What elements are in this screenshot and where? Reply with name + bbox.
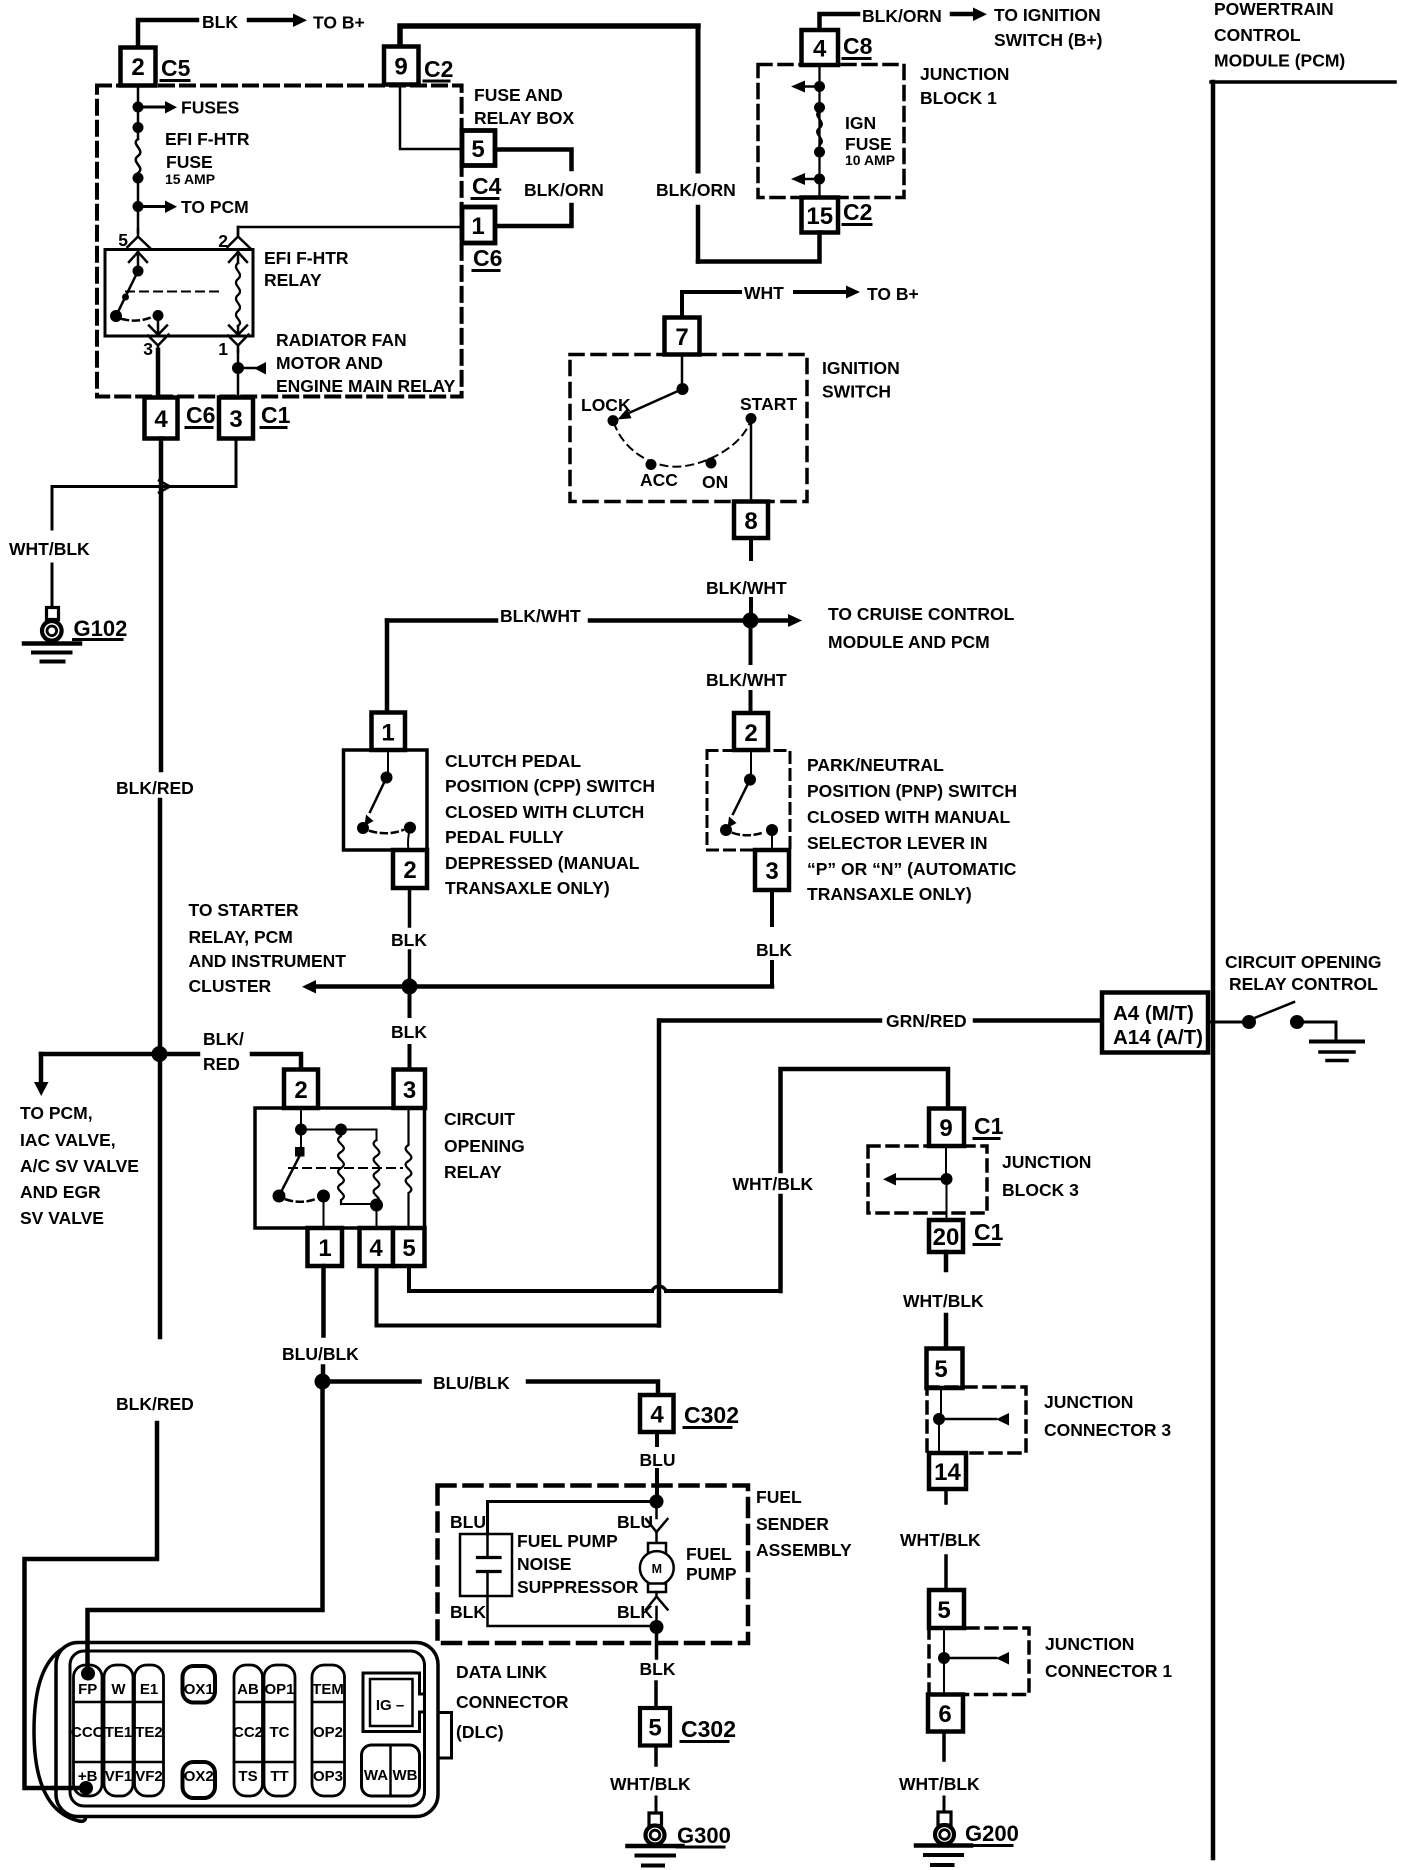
- pin 1 male arrow (down): [229, 326, 247, 335]
- DLC inner shell: [70, 1651, 425, 1806]
- relay box (circuit opening relay): [255, 1108, 425, 1228]
- fuse IGN 10A (wavy symbol): [817, 111, 822, 149]
- svg-text:FUEL: FUEL: [686, 1544, 732, 1564]
- svg-text:2: 2: [131, 54, 144, 81]
- svg-text:AND INSTRUMENT: AND INSTRUMENT: [189, 951, 347, 971]
- svg-text:SV VALVE: SV VALVE: [20, 1208, 104, 1228]
- svg-text:SWITCH (B+): SWITCH (B+): [994, 30, 1102, 50]
- JC3 interior: [940, 1388, 942, 1416]
- svg-text:MODULE (PCM): MODULE (PCM): [1214, 51, 1345, 71]
- svg-text:C1: C1: [974, 1219, 1004, 1245]
- svg-text:TO PCM: TO PCM: [181, 197, 249, 217]
- interior link to coils: [301, 1130, 377, 1141]
- arrow to FUSES: [144, 106, 166, 109]
- hop over GRN/RED: [652, 1286, 666, 1291]
- wire from relay pin 5: [409, 1266, 652, 1291]
- junction connector 3 (dashed): [927, 1387, 1026, 1453]
- svg-text:MODULE AND PCM: MODULE AND PCM: [828, 632, 990, 652]
- svg-text:BLK: BLK: [640, 1659, 676, 1679]
- wire pin7 into switch: [681, 355, 684, 389]
- switch contact node right: [153, 310, 164, 321]
- wire pin3 to 4 C6: [156, 350, 161, 400]
- svg-text:VF2: VF2: [135, 1768, 163, 1785]
- connector box 7: [665, 318, 700, 355]
- pins WA WB: [362, 1745, 420, 1796]
- connector box 1 C6: [462, 207, 495, 243]
- svg-text:A14 (A/T): A14 (A/T): [1113, 1026, 1203, 1049]
- wire 3 C1 down to ground run: [52, 439, 236, 487]
- svg-text:BLK/WHT: BLK/WHT: [706, 670, 787, 690]
- wire BLU: [655, 1432, 659, 1445]
- svg-text:2: 2: [403, 857, 416, 884]
- svg-text:9: 9: [394, 54, 407, 81]
- connector box 5 C302: [640, 1708, 670, 1746]
- pin column TEM/OP2/OP3: [312, 1665, 345, 1796]
- JB3 interior: [945, 1146, 947, 1176]
- svg-text:C4: C4: [472, 173, 502, 199]
- svg-text:ACC: ACC: [640, 470, 678, 490]
- svg-text:BLK/WHT: BLK/WHT: [500, 606, 581, 626]
- svg-text:5: 5: [402, 1235, 415, 1262]
- svg-text:BLK/RED: BLK/RED: [116, 778, 194, 798]
- wire pin2 into PNP: [750, 750, 752, 778]
- svg-text:5: 5: [118, 230, 128, 250]
- node fuel pump feed: [650, 1495, 664, 1509]
- node BLK/WHT tee: [743, 613, 759, 629]
- node +B terminal: [79, 1781, 93, 1795]
- svg-text:BLU/BLK: BLU/BLK: [433, 1373, 510, 1393]
- svg-text:BLK: BLK: [391, 930, 427, 950]
- svg-text:RELAY, PCM: RELAY, PCM: [189, 927, 293, 947]
- relay interior: pin2 lead: [300, 1108, 302, 1127]
- CPP blade with arrow: [370, 778, 387, 813]
- DLC right tab: [438, 1713, 452, 1759]
- pin 1 connector symbol: [228, 335, 249, 353]
- connector box 3 (PNP): [755, 850, 789, 890]
- pin OX1: [183, 1666, 216, 1703]
- svg-text:C8: C8: [843, 33, 873, 59]
- node FP terminal: [81, 1667, 95, 1681]
- node fuel pump return: [650, 1620, 664, 1634]
- svg-text:BLK: BLK: [391, 1022, 427, 1042]
- svg-text:CLOSED WITH MANUAL: CLOSED WITH MANUAL: [807, 807, 1010, 827]
- node ACC: [646, 459, 657, 470]
- svg-text:JUNCTION: JUNCTION: [1045, 1634, 1134, 1654]
- wire BLK down: [655, 1627, 659, 1658]
- svg-text:AND EGR: AND EGR: [20, 1182, 101, 1202]
- DLC outer shell: [56, 1643, 438, 1817]
- svg-text:RELAY: RELAY: [444, 1162, 502, 1182]
- wire 9 C2 to pin 5: [400, 85, 461, 150]
- coil 3 (pin3 to pin5): [406, 1108, 412, 1228]
- wire fuse feed vertical: [137, 86, 140, 139]
- switch pivot node: [133, 266, 144, 277]
- svg-text:LOCK: LOCK: [581, 395, 631, 415]
- junction block 3 (dashed): [868, 1146, 987, 1213]
- svg-text:AB: AB: [237, 1681, 259, 1698]
- svg-text:FUSE: FUSE: [845, 134, 892, 154]
- svg-text:PARK/NEUTRAL: PARK/NEUTRAL: [807, 755, 944, 775]
- svg-text:SUPPRESSOR: SUPPRESSOR: [517, 1577, 639, 1597]
- svg-text:TE1: TE1: [105, 1724, 133, 1741]
- PNP blade with arrow: [733, 780, 750, 814]
- node ON: [706, 458, 717, 469]
- wire +B entry through shell: [54, 1786, 80, 1791]
- pin column FP/CCO/+B: [74, 1665, 103, 1796]
- svg-text:G200: G200: [965, 1821, 1019, 1846]
- svg-text:BLU: BLU: [450, 1512, 486, 1532]
- wire pin1 into CPP: [387, 750, 389, 776]
- node CPP contact right: [404, 822, 416, 834]
- node CPP pivot: [381, 772, 393, 784]
- svg-text:START: START: [740, 394, 797, 414]
- wire WHT/BLK to G300: [654, 1746, 658, 1766]
- ignition rotor blade with arrow: [630, 389, 683, 413]
- svg-text:TO B+: TO B+: [867, 284, 919, 304]
- svg-text:JUNCTION: JUNCTION: [1002, 1152, 1091, 1172]
- wire BLK/RED horizontal: [41, 1052, 198, 1057]
- wire BLK/ORN from 4 C8 to ignition switch: [820, 14, 859, 30]
- wire BLU/BLK from relay pin 1: [321, 1266, 326, 1336]
- switch armature: [300, 1130, 302, 1148]
- wire pin1 to 3 C1: [237, 350, 240, 400]
- svg-text:OP2: OP2: [313, 1724, 343, 1741]
- node radiator fan branch: [232, 362, 244, 374]
- node coil1 top: [335, 1124, 347, 1136]
- wire to noise suppressor: [488, 1502, 657, 1535]
- node + arrow branch top: [814, 81, 825, 92]
- motor fuel pump: [648, 1543, 666, 1553]
- node LOCK: [608, 415, 619, 426]
- svg-text:(DLC): (DLC): [456, 1722, 504, 1742]
- svg-text:WHT/BLK: WHT/BLK: [610, 1774, 691, 1794]
- svg-text:POSITION (PNP) SWITCH: POSITION (PNP) SWITCH: [807, 781, 1017, 801]
- svg-text:CONNECTOR: CONNECTOR: [456, 1692, 569, 1712]
- svg-text:JUNCTION: JUNCTION: [920, 64, 1009, 84]
- svg-text:FP: FP: [78, 1681, 97, 1698]
- connector box 3 C1: [219, 398, 253, 439]
- svg-text:3: 3: [143, 339, 153, 359]
- connector box 4 C302: [640, 1395, 674, 1432]
- switch contact node left: [110, 310, 122, 322]
- svg-text:3: 3: [765, 858, 778, 885]
- svg-text:14: 14: [934, 1459, 961, 1486]
- svg-text:BLK/WHT: BLK/WHT: [706, 578, 787, 598]
- wire BLK down to circuit opening relay pin 3: [408, 994, 412, 1016]
- svg-text:G102: G102: [74, 616, 128, 641]
- ground G300 (ring terminal): [649, 1813, 662, 1826]
- svg-text:5: 5: [934, 1356, 947, 1383]
- svg-text:TRANSAXLE ONLY): TRANSAXLE ONLY): [445, 878, 610, 898]
- link to pin 2: [408, 828, 410, 850]
- svg-text:RED: RED: [203, 1054, 240, 1074]
- svg-text:BLK: BLK: [450, 1602, 486, 1622]
- svg-text:FUSES: FUSES: [181, 98, 239, 118]
- svg-text:BLU/BLK: BLU/BLK: [282, 1344, 359, 1364]
- svg-text:EFI F-HTR: EFI F-HTR: [264, 248, 349, 268]
- svg-text:ON: ON: [702, 472, 728, 492]
- node BLU/BLK junction: [315, 1374, 331, 1390]
- pin column E1/TE2/VF2: [135, 1665, 164, 1796]
- svg-text:BLOCK 3: BLOCK 3: [1002, 1180, 1079, 1200]
- svg-text:WA: WA: [364, 1767, 388, 1784]
- svg-text:1: 1: [318, 1235, 331, 1262]
- PCM boundary: [1211, 82, 1216, 1858]
- svg-text:ENGINE MAIN RELAY: ENGINE MAIN RELAY: [276, 376, 456, 396]
- wire BLK/WHT to CPP pin 1: [385, 621, 390, 713]
- merge chevron at BLK/RED crossing: [159, 481, 170, 493]
- connector box 5 C4: [462, 131, 495, 166]
- svg-text:C2: C2: [424, 56, 453, 82]
- svg-text:SENDER: SENDER: [756, 1514, 829, 1534]
- svg-text:OP3: OP3: [313, 1768, 343, 1785]
- svg-text:BLK/ORN: BLK/ORN: [524, 180, 604, 200]
- wire BLK from PNP pin 3: [770, 890, 774, 925]
- svg-text:CONNECTOR 3: CONNECTOR 3: [1044, 1420, 1171, 1440]
- coil 2: [374, 1140, 380, 1204]
- wire START to pin 8: [750, 419, 753, 502]
- svg-text:M: M: [652, 1562, 662, 1576]
- svg-text:G300: G300: [677, 1823, 731, 1848]
- dashed mechanical link: [289, 1167, 402, 1169]
- svg-text:ASSEMBLY: ASSEMBLY: [756, 1540, 852, 1560]
- svg-text:CC2: CC2: [233, 1724, 263, 1741]
- svg-text:FUEL PUMP: FUEL PUMP: [517, 1531, 618, 1551]
- wire BLK/ORN loop 5 to 1: [495, 150, 572, 170]
- arrow to cruise control: [758, 618, 789, 623]
- pin 3 male arrow (down): [149, 316, 167, 335]
- wire BLK from connector 2 C5 to B+: [138, 20, 197, 49]
- node START: [746, 413, 757, 424]
- svg-text:C1: C1: [974, 1113, 1004, 1139]
- svg-text:OP1: OP1: [264, 1681, 294, 1698]
- coil 1: [338, 1130, 344, 1205]
- svg-text:5: 5: [471, 136, 484, 163]
- svg-text:IGNITION: IGNITION: [822, 358, 900, 378]
- svg-text:POWERTRAIN: POWERTRAIN: [1214, 0, 1334, 19]
- connector box 9 C1: [929, 1109, 964, 1147]
- DLC left cover wing: [34, 1643, 86, 1821]
- capacitor fuel pump noise suppressor: [460, 1534, 512, 1596]
- svg-text:3: 3: [229, 406, 242, 433]
- svg-text:WHT/BLK: WHT/BLK: [903, 1291, 984, 1311]
- fuel pump connector chevron top: [655, 1502, 658, 1519]
- svg-text:POSITION (CPP) SWITCH: POSITION (CPP) SWITCH: [445, 776, 655, 796]
- svg-text:A4 (M/T): A4 (M/T): [1113, 1002, 1194, 1025]
- svg-text:CLUTCH PEDAL: CLUTCH PEDAL: [445, 751, 581, 771]
- svg-text:5: 5: [648, 1715, 661, 1742]
- svg-text:TO IGNITION: TO IGNITION: [994, 5, 1101, 25]
- svg-text:BLOCK 1: BLOCK 1: [920, 88, 997, 108]
- svg-text:BLU: BLU: [640, 1450, 676, 1470]
- svg-text:TT: TT: [270, 1768, 288, 1785]
- wire from relay pin 4: [377, 1266, 660, 1326]
- connector box 5 (relay): [393, 1228, 425, 1266]
- svg-text:WHT/BLK: WHT/BLK: [900, 1530, 981, 1550]
- pin column OP1/TC/TT: [264, 1665, 295, 1796]
- node PNP contact right: [766, 824, 778, 836]
- connector box 2 C5: [121, 48, 156, 86]
- ignition switch box (dashed): [570, 355, 807, 502]
- junction connector 1 (dashed): [929, 1628, 1029, 1695]
- wire BLU/BLK horizontal to 4 C302: [330, 1379, 420, 1384]
- svg-text:10 AMP: 10 AMP: [845, 152, 895, 168]
- svg-text:SWITCH: SWITCH: [822, 382, 891, 402]
- svg-text:BLK: BLK: [202, 12, 238, 32]
- wire: [137, 175, 140, 232]
- connector box 8: [734, 502, 768, 539]
- svg-text:TE2: TE2: [135, 1724, 163, 1741]
- svg-text:WHT: WHT: [744, 283, 784, 303]
- svg-text:W: W: [111, 1681, 126, 1698]
- connector box 2 (relay): [284, 1070, 318, 1109]
- svg-text:C5: C5: [161, 55, 191, 81]
- connector box 1 (CPP): [372, 713, 406, 751]
- svg-text:4: 4: [154, 406, 168, 433]
- connector box 6: [928, 1695, 963, 1732]
- wire BLK/WHT from pin 8: [749, 538, 753, 559]
- svg-text:WHT/BLK: WHT/BLK: [733, 1174, 814, 1194]
- pin box A4 (M/T) / A14 (A/T): [1102, 993, 1208, 1053]
- svg-text:TS: TS: [238, 1768, 257, 1785]
- connector box 5 (JC3): [927, 1349, 963, 1389]
- svg-text:TO CRUISE CONTROL: TO CRUISE CONTROL: [828, 604, 1015, 624]
- pin 2 male arrow (up) + relay coil: [229, 252, 247, 263]
- connector box 20 C1: [929, 1220, 963, 1252]
- svg-text:TO PCM,: TO PCM,: [20, 1103, 93, 1123]
- dashed contact segment: [733, 832, 765, 835]
- svg-text:NOISE: NOISE: [517, 1554, 571, 1574]
- wire top horizontal to 9 C2: [400, 26, 698, 46]
- wire GRN/RED: [660, 1018, 880, 1023]
- node PNP pivot: [744, 774, 756, 786]
- svg-text:IG –: IG –: [376, 1697, 404, 1714]
- fuel pump connector chevron bottom: [655, 1592, 658, 1597]
- svg-text:TO B+: TO B+: [313, 13, 365, 33]
- dashed contact segment: [286, 1199, 317, 1202]
- svg-text:CIRCUIT: CIRCUIT: [444, 1109, 515, 1129]
- svg-text:IAC VALVE,: IAC VALVE,: [20, 1130, 116, 1150]
- pin column W/TE1/VF1: [104, 1665, 133, 1796]
- node above EFI F-HTR fuse: [133, 122, 144, 133]
- svg-text:MOTOR AND: MOTOR AND: [276, 353, 383, 373]
- svg-text:FUSE: FUSE: [166, 152, 213, 172]
- wire BLK/WHT horizontal: [387, 618, 496, 623]
- svg-text:1: 1: [471, 213, 484, 240]
- connector box 15 C2: [802, 198, 839, 233]
- node below fuse: [133, 173, 144, 184]
- svg-text:C2: C2: [843, 199, 872, 225]
- svg-text:CONNECTOR 1: CONNECTOR 1: [1045, 1661, 1172, 1681]
- dashed contact segment: [122, 317, 152, 321]
- node contact left: [273, 1190, 286, 1203]
- ground (PCM internal): [1311, 1040, 1363, 1044]
- svg-text:C302: C302: [681, 1716, 736, 1742]
- link to pin 3: [771, 830, 773, 850]
- svg-text:C302: C302: [684, 1402, 739, 1428]
- svg-text:CONTROL: CONTROL: [1214, 25, 1301, 45]
- node coil bottom: [370, 1199, 383, 1212]
- node above IGN fuse: [814, 102, 825, 113]
- fuse EFI F-HTR 15A (wavy symbol): [136, 139, 141, 175]
- svg-text:5: 5: [937, 1597, 950, 1624]
- svg-text:TRANSAXLE ONLY): TRANSAXLE ONLY): [807, 884, 972, 904]
- mechanical link (dashed): [126, 291, 224, 293]
- arrow to B+: [249, 18, 294, 23]
- node fuse top junction: [133, 102, 144, 113]
- svg-text:PUMP: PUMP: [686, 1564, 737, 1584]
- pin 5 male arrow: [129, 252, 147, 271]
- svg-text:FUEL: FUEL: [756, 1487, 802, 1507]
- svg-text:4: 4: [813, 36, 827, 63]
- connector box 5 (JC1): [929, 1590, 964, 1628]
- wire WHT/BLK: [944, 1489, 948, 1503]
- pin column AB/CC2/TS: [234, 1665, 263, 1796]
- svg-text:C6: C6: [186, 402, 215, 428]
- svg-text:TC: TC: [270, 1724, 290, 1741]
- wire WHT/BLK to G200: [942, 1732, 946, 1761]
- svg-text:PEDAL FULLY: PEDAL FULLY: [445, 827, 564, 847]
- svg-text:C6: C6: [473, 245, 502, 271]
- svg-text:1: 1: [381, 720, 394, 747]
- node PNP contact left: [720, 824, 732, 836]
- svg-text:BLK/ORN: BLK/ORN: [862, 6, 942, 26]
- svg-text:WB: WB: [393, 1767, 418, 1784]
- node TO PCM junction: [133, 201, 144, 212]
- relay EFI F-HTR (box): [105, 250, 253, 337]
- dashed contact segment: [370, 830, 403, 833]
- svg-text:FUSE AND: FUSE AND: [474, 85, 563, 105]
- svg-text:A/C SV VALVE: A/C SV VALVE: [20, 1156, 139, 1176]
- connector box 9 C2: [384, 47, 419, 85]
- svg-text:CLUSTER: CLUSTER: [189, 976, 272, 996]
- arrow to PCM: [144, 205, 166, 208]
- svg-text:OX1: OX1: [184, 1681, 214, 1698]
- CPP switch box: [344, 750, 428, 850]
- wire BLK/RED vertical: [159, 439, 164, 771]
- svg-text:OPENING: OPENING: [444, 1136, 525, 1156]
- svg-text:BLK/: BLK/: [203, 1029, 244, 1049]
- connector IG- (keyed): [363, 1673, 425, 1732]
- wire inside JB1: [818, 65, 820, 198]
- wire WHT to B+: [682, 292, 740, 317]
- wire BLK horizontal with arrow to starter relay: [302, 980, 316, 994]
- svg-text:4: 4: [650, 1402, 664, 1429]
- wire WHT/BLK: [944, 1252, 949, 1270]
- wire FP entry through shell: [85, 1643, 90, 1668]
- svg-text:BLK/RED: BLK/RED: [116, 1394, 194, 1414]
- node ignition pivot: [677, 383, 689, 395]
- svg-text:BLK/ORN: BLK/ORN: [656, 180, 736, 200]
- svg-text:JUNCTION: JUNCTION: [1044, 1392, 1133, 1412]
- svg-text:VF1: VF1: [105, 1768, 133, 1785]
- node + arrow branch bottom: [814, 174, 825, 185]
- wire pin2 to connector 1 C6: [238, 227, 461, 236]
- svg-text:8: 8: [744, 508, 757, 535]
- svg-text:6: 6: [938, 1701, 951, 1728]
- svg-text:RELAY CONTROL: RELAY CONTROL: [1229, 974, 1378, 994]
- svg-text:BLK: BLK: [756, 940, 792, 960]
- svg-text:15: 15: [806, 203, 833, 230]
- svg-text:2: 2: [294, 1077, 307, 1104]
- wire BLK/ORN from 15 C2 down and to fuse/relay box: [698, 233, 820, 262]
- svg-text:EFI F-HTR: EFI F-HTR: [165, 129, 250, 149]
- svg-text:GRN/RED: GRN/RED: [886, 1011, 967, 1031]
- JC1 interior: [943, 1628, 945, 1655]
- svg-text:BLK: BLK: [617, 1602, 653, 1622]
- svg-text:WHT/BLK: WHT/BLK: [9, 539, 90, 559]
- svg-text:TEM: TEM: [312, 1681, 344, 1698]
